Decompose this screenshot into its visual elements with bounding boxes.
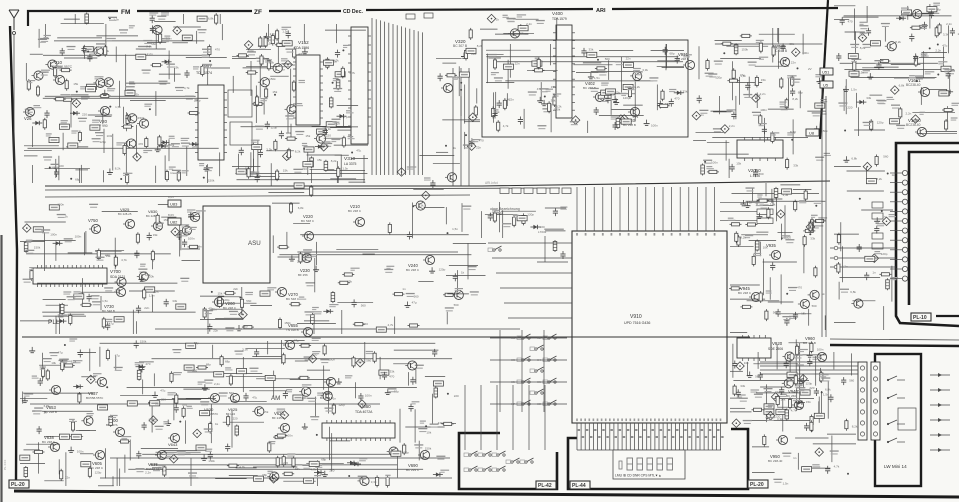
vertical feed wires to right section — [821, 70, 823, 337]
svg-text:3,3k: 3,3k — [418, 203, 424, 207]
svg-text:BC 228-25: BC 228-25 — [118, 212, 132, 216]
svg-text:8,2k: 8,2k — [115, 167, 121, 171]
svg-text:470: 470 — [389, 375, 394, 379]
svg-text:47µ: 47µ — [58, 351, 63, 355]
svg-text:U5: U5 — [823, 83, 829, 88]
svg-text:220: 220 — [302, 167, 307, 171]
svg-text:ARI: ARI — [596, 8, 606, 14]
svg-text:220: 220 — [540, 225, 545, 229]
svg-text:4,7k: 4,7k — [633, 115, 639, 119]
V910 left edge feed wiring — [446, 243, 486, 324]
svg-text:120p: 120p — [715, 76, 722, 80]
long wire lower left — [30, 403, 380, 405]
svg-text:150k: 150k — [284, 321, 291, 325]
voltage test box U51 — [808, 67, 833, 75]
svg-text:1,5n: 1,5n — [102, 299, 108, 303]
IC V30 TDA1574 FM demod — [195, 85, 227, 160]
bottom left wiring — [20, 338, 102, 486]
svg-text:120p: 120p — [806, 382, 813, 386]
svg-text:H7: H7 — [511, 402, 515, 406]
ZF section wiring — [232, 24, 368, 183]
transistor V10 — [53, 75, 65, 84]
svg-text:1,5n: 1,5n — [452, 227, 458, 231]
svg-text:AM: AM — [271, 395, 280, 402]
svg-text:H5: H5 — [511, 380, 515, 384]
svg-text:10k: 10k — [781, 398, 786, 402]
right amplifier top wiring — [834, 3, 959, 136]
svg-text:4,7k: 4,7k — [791, 408, 797, 412]
PL-10 connector pin column — [872, 170, 908, 281]
V910 top pin label boxes — [500, 188, 773, 224]
svg-text:6,8k: 6,8k — [208, 17, 214, 21]
svg-text:6,8k: 6,8k — [825, 387, 831, 391]
svg-text:BC 260: BC 260 — [786, 394, 796, 398]
transistor V830 — [151, 221, 163, 230]
ARI block frame — [482, 40, 688, 137]
svg-text:47µ: 47µ — [294, 338, 299, 342]
svg-text:6,8k: 6,8k — [298, 206, 304, 210]
svg-text:2,2n: 2,2n — [946, 22, 952, 26]
svg-text:470: 470 — [797, 286, 802, 290]
svg-text:8,2k: 8,2k — [852, 424, 858, 428]
svg-text:560: 560 — [229, 391, 234, 395]
svg-text:V750: V750 — [88, 218, 98, 223]
svg-text:100n: 100n — [817, 348, 824, 352]
full width bus line right — [830, 345, 959, 346]
PL-10 connector label — [911, 313, 931, 321]
svg-text:560: 560 — [361, 304, 366, 308]
transistor V940 — [792, 400, 804, 409]
transistor V605 — [93, 450, 105, 459]
svg-text:120p: 120p — [439, 268, 446, 272]
mid band junction wiring — [247, 151, 460, 200]
AM lower rail wire — [110, 457, 450, 459]
connector label PL-20 bottom left — [9, 480, 29, 488]
svg-text:150k: 150k — [208, 459, 215, 463]
IC V700 SDA2112 PLL synthesizer — [33, 265, 107, 287]
svg-text:10k: 10k — [162, 468, 167, 472]
connector column Pm — [871, 362, 880, 440]
svg-text:SDE 2506: SDE 2506 — [768, 347, 783, 351]
V920 area wiring — [730, 333, 829, 433]
svg-text:U82: U82 — [170, 220, 178, 225]
svg-text:H3: H3 — [511, 358, 515, 362]
svg-text:U83: U83 — [170, 202, 178, 207]
svg-text:LA 3375: LA 3375 — [344, 162, 357, 166]
svg-text:1n: 1n — [402, 287, 406, 291]
svg-text:2,2n: 2,2n — [935, 48, 941, 52]
svg-text:8,2k: 8,2k — [634, 85, 640, 89]
svg-text:47µ: 47µ — [115, 354, 120, 358]
svg-text:3,3k: 3,3k — [642, 68, 648, 72]
transistor V403 — [628, 107, 640, 116]
ARI output stage wiring — [692, 28, 831, 178]
svg-text:1n: 1n — [333, 396, 337, 400]
svg-text:15k: 15k — [347, 280, 352, 284]
svg-text:8,2k: 8,2k — [331, 159, 337, 163]
svg-text:150k: 150k — [140, 340, 147, 344]
svg-text:3,3k: 3,3k — [770, 203, 776, 207]
svg-text:H1: H1 — [511, 336, 515, 340]
voltage test box U8 — [790, 129, 819, 136]
svg-text:47µ: 47µ — [942, 43, 947, 47]
svg-text:47µ: 47µ — [412, 300, 417, 304]
svg-text:V400: V400 — [552, 11, 563, 16]
PL-10 shield bus outer — [896, 143, 959, 326]
svg-text:4,7k: 4,7k — [184, 86, 190, 90]
svg-text:15k: 15k — [272, 90, 277, 94]
svg-text:1,5n: 1,5n — [342, 166, 348, 170]
svg-text:1k: 1k — [53, 166, 57, 170]
svg-text:220: 220 — [82, 113, 87, 117]
svg-text:15k: 15k — [801, 312, 806, 316]
svg-text:1k: 1k — [136, 93, 140, 97]
svg-text:33k: 33k — [172, 299, 177, 303]
svg-text:1k: 1k — [215, 422, 219, 426]
transistor V402 — [593, 92, 605, 101]
transistor V270 — [275, 287, 287, 296]
svg-text:15k: 15k — [73, 82, 78, 86]
svg-text:H8: H8 — [537, 402, 541, 406]
svg-text:33k: 33k — [390, 370, 395, 374]
svg-text:6,8k: 6,8k — [899, 84, 905, 88]
right edge connector pins a-C a-D — [830, 246, 896, 269]
svg-text:1n: 1n — [700, 113, 704, 117]
IC V310 LA3375 stereo decoder — [348, 27, 371, 144]
IC V2050 regulator L4936 — [737, 137, 783, 161]
svg-text:8,0V: 8,0V — [168, 195, 174, 199]
bottom long wire — [100, 477, 452, 479]
svg-text:150k: 150k — [742, 47, 749, 51]
svg-text:8,2k: 8,2k — [556, 105, 562, 109]
LED column right edge — [930, 373, 950, 452]
svg-text:1n: 1n — [282, 67, 286, 71]
svg-text:100n: 100n — [50, 232, 57, 236]
transistor V630 — [208, 393, 220, 402]
svg-text:22n: 22n — [791, 61, 796, 65]
svg-text:100n: 100n — [248, 49, 255, 53]
svg-text:1,5n: 1,5n — [238, 312, 244, 316]
transistor V960 — [815, 352, 827, 361]
svg-text:2,2n: 2,2n — [214, 382, 220, 386]
svg-text:120p: 120p — [881, 252, 888, 256]
svg-text:V935: V935 — [766, 243, 776, 248]
svg-text:220: 220 — [809, 386, 814, 390]
svg-text:150k: 150k — [269, 77, 276, 81]
svg-text:4,7k: 4,7k — [115, 288, 121, 292]
transistor V1661 — [918, 87, 930, 96]
svg-text:8,2k: 8,2k — [477, 44, 483, 48]
keyboard keys in PL-42 — [464, 451, 478, 457]
ZF top wiring — [480, 14, 557, 40]
bottom right V950 wiring — [752, 352, 858, 485]
key matrix labels — [511, 336, 541, 406]
station key matrix — [488, 246, 502, 252]
LW Mini switch contacts — [887, 376, 916, 443]
svg-text:1k: 1k — [461, 271, 465, 275]
svg-text:BC 307 B: BC 307 B — [453, 44, 468, 48]
svg-text:560: 560 — [812, 304, 817, 308]
transistor V637 — [95, 377, 107, 386]
svg-text:560: 560 — [151, 42, 156, 46]
svg-text:15k: 15k — [736, 162, 741, 166]
svg-text:120p: 120p — [223, 298, 230, 302]
display connector box PL-44 — [568, 429, 748, 489]
transistor V26 — [23, 107, 35, 116]
transistor V730 — [114, 287, 126, 296]
svg-text:1,5n: 1,5n — [282, 30, 288, 34]
svg-text:BC238-40: BC238-40 — [906, 83, 921, 87]
transistor V635 — [155, 450, 167, 459]
svg-text:1n: 1n — [793, 456, 797, 460]
svg-text:V910: V910 — [630, 314, 642, 320]
svg-text:15k: 15k — [317, 158, 322, 162]
svg-text:560: 560 — [246, 299, 251, 303]
svg-text:120p: 120p — [194, 98, 201, 102]
svg-text:3,3k: 3,3k — [943, 32, 949, 36]
transistor V945 — [749, 292, 761, 301]
svg-text:BC 238 C: BC 238 C — [406, 268, 420, 272]
svg-text:15k: 15k — [264, 410, 269, 414]
transistor V230 — [300, 253, 312, 262]
svg-text:150k: 150k — [208, 178, 215, 182]
svg-text:33k: 33k — [174, 65, 179, 69]
svg-text:22n: 22n — [65, 475, 70, 479]
PL-10 shield bus inner — [909, 152, 959, 305]
transistor V600 — [113, 427, 125, 436]
svg-text:PLL: PLL — [48, 319, 60, 326]
svg-text:120p: 120p — [614, 91, 621, 95]
svg-text:1k: 1k — [44, 411, 48, 415]
V910 bottom pin field — [576, 233, 724, 450]
svg-text:TN 918 B: TN 918 B — [286, 328, 299, 332]
transistor V260 — [212, 297, 224, 306]
AM section wiring — [98, 338, 459, 488]
svg-text:10k: 10k — [332, 59, 337, 63]
svg-text:100n: 100n — [711, 160, 718, 164]
svg-text:33k: 33k — [683, 89, 688, 93]
svg-text:22n: 22n — [155, 401, 160, 405]
svg-text:1k: 1k — [753, 83, 757, 87]
below ASU wiring — [200, 287, 276, 334]
svg-text:BC 238 C: BC 238 C — [738, 291, 752, 295]
svg-text:1,5n: 1,5n — [783, 481, 789, 485]
svg-text:120p: 120p — [338, 403, 345, 407]
svg-text:TDA 4072A: TDA 4072A — [355, 410, 373, 414]
svg-text:150k: 150k — [34, 245, 41, 249]
svg-text:22n: 22n — [509, 97, 514, 101]
svg-text:1k: 1k — [272, 38, 276, 42]
transistor V320 — [441, 83, 453, 92]
svg-text:H2: H2 — [537, 336, 541, 340]
svg-text:220: 220 — [847, 106, 852, 110]
CD decoder right wiring — [436, 28, 484, 152]
svg-text:LW Mini 14: LW Mini 14 — [884, 464, 907, 469]
svg-text:2,2n: 2,2n — [729, 124, 735, 128]
svg-text:33k: 33k — [551, 98, 556, 102]
svg-text:150k: 150k — [425, 446, 432, 450]
svg-text:6,8k: 6,8k — [44, 404, 50, 408]
svg-text:47µ: 47µ — [252, 395, 257, 399]
svg-text:100n: 100n — [77, 449, 84, 453]
svg-text:15k: 15k — [218, 292, 223, 296]
svg-text:BC 238 C: BC 238 C — [42, 440, 56, 444]
svg-text:100n: 100n — [365, 394, 372, 398]
svg-text:47µ: 47µ — [356, 149, 361, 153]
svg-text:15k: 15k — [761, 78, 766, 82]
svg-text:22n: 22n — [144, 306, 149, 310]
svg-text:560: 560 — [414, 294, 419, 298]
transistor V625 — [228, 393, 240, 402]
svg-text:4,7k: 4,7k — [239, 465, 245, 469]
page left scan edge — [0, 235, 2, 502]
svg-text:8,0V: 8,0V — [168, 213, 174, 217]
svg-text:100n: 100n — [760, 108, 767, 112]
transistor V240 — [423, 255, 435, 264]
svg-text:1,5n: 1,5n — [851, 88, 857, 92]
svg-text:4,7k: 4,7k — [121, 258, 127, 262]
mid bus wire 3 — [45, 195, 470, 197]
svg-text:560: 560 — [849, 379, 854, 383]
transistor V931 — [683, 60, 695, 69]
above FM bus wiring — [61, 12, 221, 25]
svg-text:ZF: ZF — [254, 9, 262, 16]
svg-text:1,5n: 1,5n — [113, 18, 119, 22]
svg-text:470: 470 — [674, 96, 679, 100]
svg-text:3,3k: 3,3k — [777, 417, 783, 421]
ASU box — [203, 206, 270, 283]
svg-text:150k: 150k — [147, 274, 154, 278]
svg-text:1k: 1k — [65, 215, 69, 219]
svg-text:120p: 120p — [402, 451, 409, 455]
svg-text:1,5n: 1,5n — [858, 70, 864, 74]
svg-text:15k: 15k — [305, 134, 310, 138]
svg-text:SDA 2121: SDA 2121 — [110, 275, 125, 279]
svg-text:150k: 150k — [754, 94, 761, 98]
svg-text:560: 560 — [883, 155, 888, 159]
svg-text:220: 220 — [329, 469, 334, 473]
svg-text:33k: 33k — [589, 48, 594, 52]
trimmer box P52 — [230, 122, 252, 145]
transistor V620 — [278, 423, 290, 432]
svg-text:1n: 1n — [749, 201, 753, 205]
wire bus into LW Mini — [760, 362, 858, 374]
svg-text:120p: 120p — [877, 121, 884, 125]
svg-text:6,8k: 6,8k — [766, 216, 772, 220]
svg-text:4,7k: 4,7k — [388, 323, 394, 327]
svg-text:150k: 150k — [168, 143, 175, 147]
transistor V1660 — [915, 127, 927, 136]
svg-text:47µ: 47µ — [160, 389, 165, 393]
right of V910 wiring — [728, 183, 827, 330]
svg-text:10k: 10k — [51, 361, 56, 365]
transistor V935 — [769, 250, 781, 259]
svg-text:BC 548 C: BC 548 C — [301, 219, 315, 223]
svg-text:470: 470 — [848, 20, 853, 24]
svg-text:V152: V152 — [298, 40, 309, 45]
svg-text:100n: 100n — [286, 434, 293, 438]
svg-text:22n: 22n — [212, 308, 217, 312]
svg-text:3,3k: 3,3k — [242, 348, 248, 352]
svg-text:4,7k: 4,7k — [503, 124, 509, 128]
svg-text:4,7k: 4,7k — [323, 144, 329, 148]
svg-text:33k: 33k — [789, 42, 794, 46]
IC V910 microcontroller uPD7516 — [572, 231, 727, 423]
svg-text:33k: 33k — [551, 85, 556, 89]
svg-text:TDA 1596: TDA 1596 — [294, 46, 309, 50]
svg-text:PL XXX: PL XXX — [3, 460, 7, 470]
key matrix wires — [465, 330, 567, 450]
svg-text:4,7k: 4,7k — [834, 465, 840, 469]
svg-text:22n: 22n — [626, 57, 631, 61]
svg-text:120p: 120p — [527, 212, 534, 216]
svg-text:PL-10: PL-10 — [913, 315, 927, 321]
connector label PL-20 bottom right — [748, 480, 768, 488]
IC V400 TDA1579 ARI decoder — [553, 25, 575, 118]
mid bus wire 2 — [45, 188, 560, 190]
svg-text:120p: 120p — [95, 471, 102, 475]
voltage test box U5 — [820, 81, 833, 88]
svg-text:120p: 120p — [100, 140, 107, 144]
svg-text:560: 560 — [243, 325, 248, 329]
L7032 coil cluster left of V910 — [537, 230, 568, 262]
svg-text:LMU IB CD DNR CPS MTL▼▲: LMU IB CD DNR CPS MTL▼▲ — [615, 474, 661, 478]
svg-text:BC 548 C: BC 548 C — [286, 297, 300, 301]
svg-text:V700: V700 — [110, 269, 121, 274]
svg-text:220: 220 — [283, 461, 288, 465]
svg-text:68p: 68p — [321, 457, 326, 461]
transistor V655 — [301, 327, 313, 336]
svg-text:1k: 1k — [496, 18, 500, 22]
svg-text:22n: 22n — [105, 253, 110, 257]
svg-text:PL-20: PL-20 — [11, 482, 25, 488]
svg-text:1n: 1n — [872, 270, 876, 274]
PLL section wiring — [20, 202, 206, 334]
svg-text:22n: 22n — [213, 328, 218, 332]
svg-text:560: 560 — [366, 359, 371, 363]
svg-text:BF 256: BF 256 — [298, 273, 308, 277]
svg-text:FM: FM — [121, 9, 130, 16]
svg-text:V26: V26 — [24, 116, 32, 121]
svg-text:CD Dec.: CD Dec. — [343, 9, 363, 15]
svg-text:220: 220 — [161, 398, 166, 402]
svg-text:33k: 33k — [810, 237, 815, 241]
svg-text:3,3k: 3,3k — [921, 54, 927, 58]
svg-text:BC 238-40: BC 238-40 — [768, 459, 783, 463]
svg-text:22n: 22n — [306, 253, 311, 257]
svg-text:220: 220 — [233, 416, 238, 420]
svg-text:15k: 15k — [806, 400, 811, 404]
svg-text:3,3k: 3,3k — [371, 480, 377, 484]
svg-text:2,2n: 2,2n — [906, 111, 912, 115]
transistor V650 — [324, 377, 336, 386]
IC V920 SDK2506 — [737, 335, 771, 361]
svg-text:33k: 33k — [295, 467, 300, 471]
svg-text:2,2n: 2,2n — [760, 92, 766, 96]
svg-text:TDA 1579: TDA 1579 — [552, 17, 567, 21]
svg-text:100n: 100n — [802, 51, 809, 55]
antenna symbol — [9, 10, 19, 185]
svg-text:100n: 100n — [57, 202, 64, 206]
right mid wiring — [834, 155, 898, 331]
AM section top bus — [22, 336, 750, 338]
svg-text:1,5n: 1,5n — [149, 294, 155, 298]
svg-text:1k: 1k — [892, 173, 896, 177]
voltage test box U83 — [168, 195, 181, 207]
svg-text:U51: U51 — [822, 70, 830, 75]
transistor V653 — [49, 385, 61, 394]
transistor V643 — [168, 433, 180, 442]
